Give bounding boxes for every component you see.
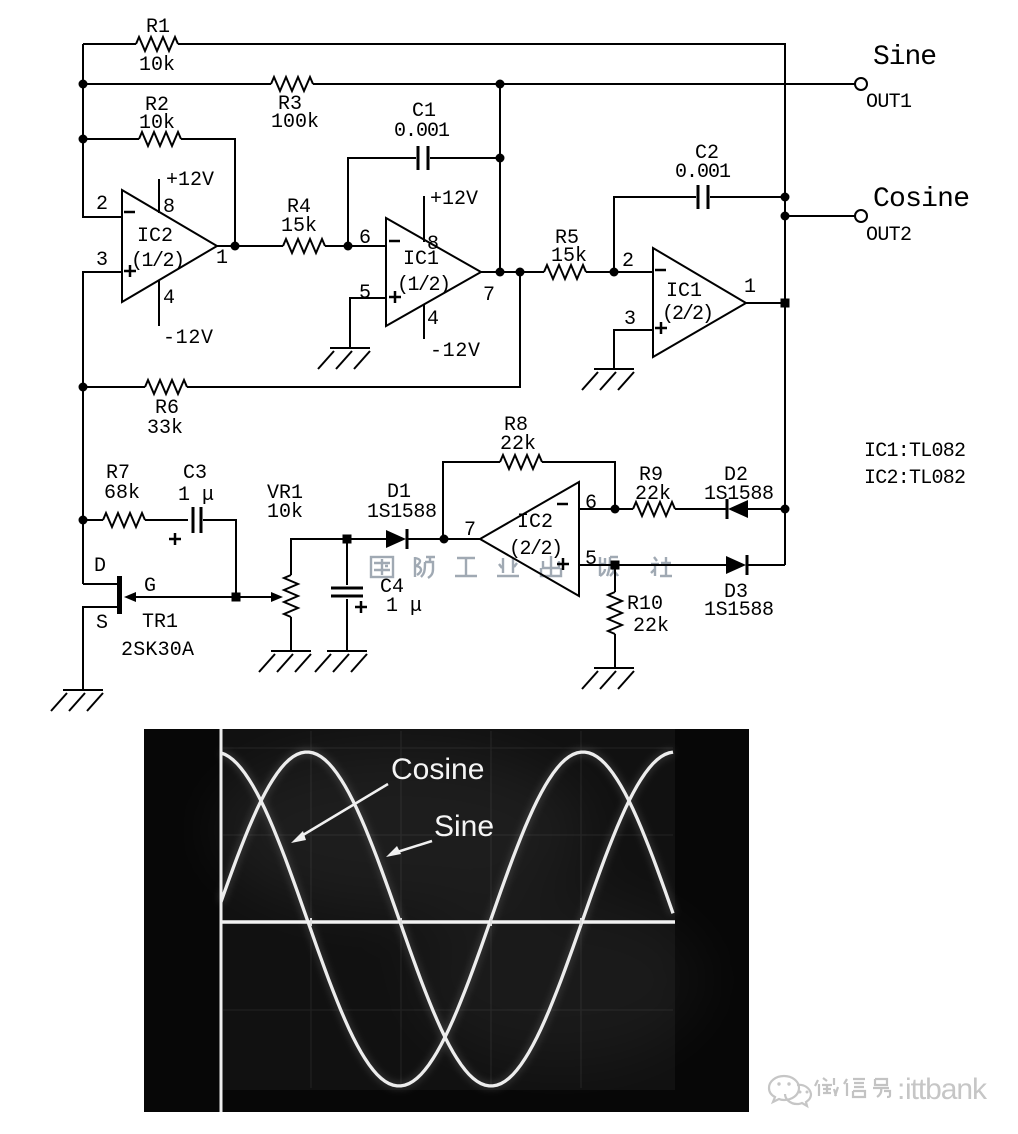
svg-text:100k: 100k bbox=[271, 111, 319, 134]
minus IC2(1/2) bbox=[124, 211, 135, 214]
svg-text:0.001: 0.001 bbox=[675, 161, 731, 184]
wire R7 row bbox=[83, 519, 188, 521]
wire IC1(2/2) out bbox=[746, 302, 785, 304]
svg-text:-12V: -12V bbox=[430, 340, 480, 363]
wire D2 to rail bbox=[748, 508, 785, 510]
wire VR1 top bbox=[291, 539, 347, 575]
pin 4 IC2 bbox=[158, 281, 160, 326]
resistor R8 bbox=[500, 455, 542, 469]
wire R10 top bbox=[614, 565, 616, 592]
wire C1 branch bbox=[348, 158, 416, 246]
resistor R3 bbox=[271, 77, 313, 91]
wire OUT2 tap bbox=[785, 215, 855, 217]
wire C2 to rail bbox=[710, 196, 785, 198]
wire IC1 pin5 bbox=[350, 298, 386, 347]
svg-text:IC2: IC2 bbox=[517, 511, 553, 534]
resistor R10 bbox=[608, 592, 622, 634]
svg-text:3: 3 bbox=[96, 249, 108, 272]
svg-text:15k: 15k bbox=[551, 245, 587, 268]
terminal OUT1 bbox=[855, 78, 867, 90]
svg-text:1 μ: 1 μ bbox=[386, 595, 422, 618]
svg-text:IC1:TL082: IC1:TL082 bbox=[864, 440, 966, 463]
svg-text:33k: 33k bbox=[147, 417, 183, 440]
svg-text:TR1: TR1 bbox=[142, 611, 178, 634]
svg-text:R1: R1 bbox=[146, 16, 170, 39]
wire IC2(2/2) pin5 row bbox=[579, 564, 726, 566]
svg-text:1S1588: 1S1588 bbox=[367, 501, 437, 524]
wire D3 to rail bbox=[748, 564, 785, 566]
wire TR1 drain bbox=[83, 583, 117, 585]
svg-text:2: 2 bbox=[622, 250, 634, 273]
wire R6 branch bbox=[83, 272, 520, 387]
gate arrow TR1 bbox=[124, 592, 136, 602]
minus IC1(2/2) bbox=[655, 269, 666, 272]
plus IC1(1/2) bbox=[389, 291, 401, 303]
wire C1 right bbox=[430, 84, 500, 272]
wire C4 bbox=[346, 539, 348, 651]
junction R2-rail bbox=[79, 135, 88, 144]
capacitor C1 bbox=[418, 146, 428, 170]
svg-text:10k: 10k bbox=[267, 501, 303, 524]
svg-text:5: 5 bbox=[359, 282, 371, 305]
svg-text:10k: 10k bbox=[139, 112, 175, 135]
junction IC2 out bbox=[231, 242, 240, 251]
capacitor C2 bbox=[698, 185, 708, 209]
resistor R9 bbox=[633, 502, 675, 516]
ground TR1 bbox=[51, 690, 103, 711]
wire R5 to IC1(2/2) pin2 bbox=[586, 271, 653, 273]
svg-text:Cosine: Cosine bbox=[391, 753, 484, 786]
resistor R4 bbox=[283, 239, 325, 253]
svg-text:(2/2): (2/2) bbox=[662, 303, 714, 326]
svg-text:4: 4 bbox=[427, 308, 439, 331]
svg-text:OUT1: OUT1 bbox=[866, 91, 912, 114]
wire C2 branch bbox=[614, 197, 696, 272]
wire R2 row bbox=[83, 139, 235, 247]
svg-text:22k: 22k bbox=[635, 483, 671, 506]
wire VR1 bottom bbox=[290, 617, 292, 651]
wire R8 loop bbox=[443, 462, 615, 539]
wiper arrow VR1 bbox=[271, 592, 283, 602]
svg-text:22k: 22k bbox=[500, 433, 536, 456]
svg-text:1 μ: 1 μ bbox=[178, 484, 214, 507]
svg-text:15k: 15k bbox=[281, 215, 317, 238]
junction D2-rail bbox=[781, 505, 790, 514]
svg-text:7: 7 bbox=[464, 519, 476, 542]
svg-text:(1/2): (1/2) bbox=[131, 250, 185, 273]
svg-text:2SK30A: 2SK30A bbox=[121, 639, 194, 662]
potentiometer VR1 bbox=[284, 575, 298, 617]
plus IC1(2/2) bbox=[655, 322, 667, 334]
junction IC1 out bbox=[496, 268, 505, 277]
svg-text:Sine: Sine bbox=[873, 42, 937, 73]
svg-text:IC1: IC1 bbox=[666, 280, 702, 303]
svg-text:Sine: Sine bbox=[434, 810, 494, 843]
pin 8 IC2 bbox=[158, 179, 160, 213]
watermark text bbox=[371, 556, 672, 578]
diode D3 bbox=[726, 555, 747, 575]
junction node D1-R8 bbox=[440, 535, 449, 544]
svg-text:3: 3 bbox=[624, 308, 636, 331]
svg-text:8: 8 bbox=[163, 196, 175, 219]
wire R10 bottom bbox=[614, 634, 616, 667]
oscilloscope photo bbox=[144, 729, 749, 1112]
svg-text:4: 4 bbox=[163, 287, 175, 310]
wechat banner bbox=[769, 1073, 988, 1106]
svg-text:(1/2): (1/2) bbox=[397, 274, 451, 297]
svg-text:1S1588: 1S1588 bbox=[704, 599, 774, 622]
op-amp U3 IC1(2/2) bbox=[653, 248, 746, 357]
svg-text:IC2:TL082: IC2:TL082 bbox=[864, 467, 966, 490]
junction R6-rail bbox=[79, 383, 88, 392]
plus C4 bbox=[355, 601, 367, 613]
svg-text:IC2: IC2 bbox=[137, 225, 173, 248]
plus C3 bbox=[169, 533, 181, 545]
capacitor C3 bbox=[193, 507, 201, 533]
minus IC1(1/2) bbox=[389, 240, 400, 243]
junction pin5 bbox=[611, 561, 620, 570]
plus IC2(2/2) bbox=[557, 558, 569, 570]
svg-text:6: 6 bbox=[359, 227, 371, 250]
resistor R6 bbox=[145, 380, 187, 394]
diode D1 bbox=[386, 529, 407, 549]
wire IC2 output to R4 bbox=[217, 245, 283, 247]
svg-text:S: S bbox=[96, 612, 108, 635]
plus IC2(1/2) bbox=[124, 265, 136, 277]
svg-text:2: 2 bbox=[96, 193, 108, 216]
resistor R2 bbox=[139, 132, 181, 146]
minus IC2(2/2) bbox=[557, 503, 568, 506]
wire right rail bbox=[784, 43, 786, 565]
svg-text:C3: C3 bbox=[183, 462, 207, 485]
diode D2 bbox=[727, 499, 748, 519]
resistor R7 bbox=[103, 513, 145, 527]
transistor TR1 channel bar bbox=[117, 576, 122, 614]
junction OUT2-rail bbox=[781, 212, 790, 221]
junction R8-pin6 bbox=[611, 505, 620, 514]
junction R7-rail bbox=[79, 516, 88, 525]
wire IC2(2/2) pin6 row bbox=[579, 508, 726, 510]
ground C4 bbox=[315, 651, 367, 672]
svg-text:6: 6 bbox=[585, 492, 597, 515]
junction C1 top bbox=[496, 80, 505, 89]
ground pin5 bbox=[318, 348, 370, 369]
svg-text:1: 1 bbox=[216, 247, 228, 270]
op-amp U4 IC2(2/2) bbox=[480, 482, 579, 596]
op-amp U1 IC2(1/2) bbox=[122, 190, 217, 302]
svg-text:R10: R10 bbox=[627, 593, 663, 616]
junction R3-rail bbox=[79, 80, 88, 89]
junction R4-C1 bbox=[344, 242, 353, 251]
svg-text:68k: 68k bbox=[104, 482, 140, 505]
wire R4 to IC1 pin6 bbox=[325, 245, 386, 247]
svg-text:+12V: +12V bbox=[430, 188, 478, 211]
op-amp U2 IC1(1/2) bbox=[386, 218, 481, 326]
svg-text:OUT2: OUT2 bbox=[866, 224, 912, 247]
ground pin3 bbox=[582, 369, 634, 390]
wire R3 row to OUT1 bbox=[83, 83, 855, 85]
junction R5-C2 bbox=[610, 268, 619, 277]
wire IC1(2/2) pin3 bbox=[614, 330, 653, 368]
wire left rail top segment bbox=[83, 44, 122, 217]
ground VR1 bbox=[259, 651, 311, 672]
wire TR1 source bbox=[83, 607, 117, 690]
junction C1 right bbox=[496, 154, 505, 163]
svg-text:10k: 10k bbox=[139, 54, 175, 77]
capacitor C4 bbox=[331, 588, 363, 596]
svg-text:1: 1 bbox=[744, 276, 756, 299]
pin 4 IC1 bbox=[423, 305, 425, 339]
junction IC1(2/2) out-rail bbox=[781, 299, 790, 308]
junction node C4 bbox=[343, 535, 352, 544]
svg-text:ittbank: ittbank bbox=[905, 1073, 988, 1106]
svg-text:7: 7 bbox=[483, 284, 495, 307]
pin 8 IC1 bbox=[423, 196, 425, 242]
wire left rail lower segment bbox=[83, 272, 122, 584]
terminal OUT2 bbox=[855, 210, 867, 222]
svg-text:G: G bbox=[144, 575, 156, 598]
svg-text:22k: 22k bbox=[633, 615, 669, 638]
wire C3 to gate branch bbox=[203, 520, 236, 597]
resistor R5 bbox=[544, 265, 586, 279]
junction C2-rail bbox=[781, 193, 790, 202]
wire gate bbox=[135, 596, 272, 598]
svg-text:0.001: 0.001 bbox=[394, 120, 450, 143]
svg-text:1S1588: 1S1588 bbox=[704, 483, 774, 506]
junction gate bbox=[232, 593, 241, 602]
wire R1 top bbox=[83, 43, 786, 45]
svg-text:+12V: +12V bbox=[166, 169, 214, 192]
svg-text:5: 5 bbox=[585, 548, 597, 571]
ground R10 bbox=[582, 668, 634, 689]
junction R6 tap bbox=[516, 268, 525, 277]
wire IC1 out to R5 bbox=[481, 271, 544, 273]
svg-text:IC1: IC1 bbox=[403, 248, 439, 271]
wire D1 row bbox=[347, 538, 480, 540]
svg-text:Cosine: Cosine bbox=[873, 184, 970, 215]
svg-text:(2/2): (2/2) bbox=[509, 538, 563, 561]
resistor R1 bbox=[136, 37, 178, 51]
svg-text:-12V: -12V bbox=[163, 327, 213, 350]
svg-text:D: D bbox=[94, 555, 106, 578]
